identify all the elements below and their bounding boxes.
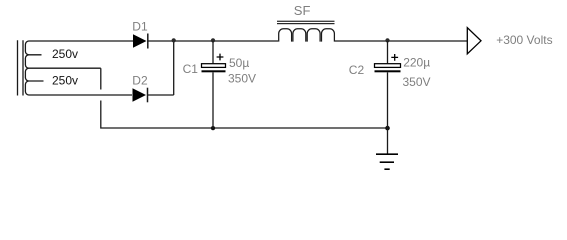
svg-text:C1: C1	[183, 62, 199, 76]
svg-text:350V: 350V	[228, 71, 256, 85]
svg-text:D1: D1	[132, 19, 148, 33]
svg-text:250v: 250v	[52, 47, 78, 61]
svg-text:220µ: 220µ	[403, 55, 430, 69]
svg-text:SF: SF	[294, 3, 311, 18]
svg-text:C2: C2	[349, 63, 365, 77]
svg-text:D2: D2	[132, 73, 148, 87]
svg-text:350V: 350V	[403, 75, 431, 89]
svg-text:50µ: 50µ	[229, 56, 249, 70]
svg-text:250v: 250v	[52, 73, 78, 87]
svg-text:+300 Volts: +300 Volts	[496, 33, 552, 47]
